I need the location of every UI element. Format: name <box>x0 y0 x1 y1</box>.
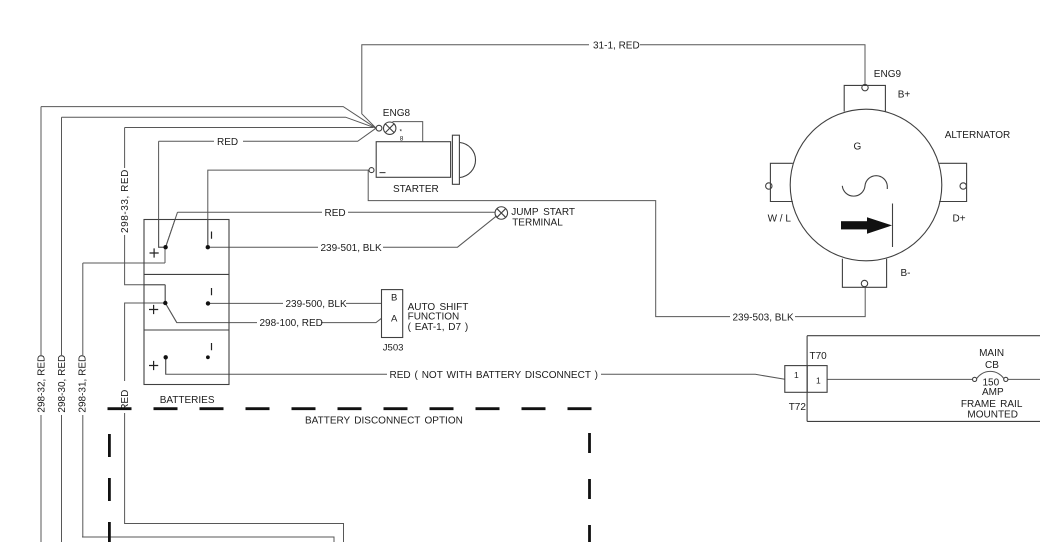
svg-text:D+: D+ <box>953 214 966 225</box>
svg-text:298-100, RED: 298-100, RED <box>260 318 323 329</box>
svg-text:298-32, RED: 298-32, RED <box>37 355 48 413</box>
svg-text:239-503, BLK: 239-503, BLK <box>733 312 794 323</box>
svg-text:RED ( NOT WITH BATTERY DISC: RED ( NOT WITH BATTERY DISCONNECT ) <box>390 370 598 381</box>
svg-text:1: 1 <box>816 375 821 385</box>
svg-text:W / L: W / L <box>768 214 792 225</box>
svg-text:FUNCTION: FUNCTION <box>408 311 460 322</box>
svg-text:1: 1 <box>794 370 799 380</box>
svg-text:FRAME RAIL: FRAME RAIL <box>961 399 1023 410</box>
svg-text:B-: B- <box>901 268 911 279</box>
svg-text:298-31, RED: 298-31, RED <box>78 355 89 413</box>
svg-text:JUMP START: JUMP START <box>511 207 575 218</box>
svg-text:J503: J503 <box>383 342 404 353</box>
svg-text:MOUNTED: MOUNTED <box>967 409 1018 420</box>
svg-text:ALTERNATOR: ALTERNATOR <box>945 130 1011 141</box>
svg-text:T70: T70 <box>810 351 828 362</box>
svg-text:AMP: AMP <box>982 387 1004 398</box>
svg-text:TERMINAL: TERMINAL <box>512 217 563 228</box>
svg-text:RED: RED <box>325 208 346 219</box>
svg-text:BATTERY DISCONNECT OPTION: BATTERY DISCONNECT OPTION <box>305 416 463 427</box>
svg-text:RED: RED <box>217 137 238 148</box>
svg-text:T72: T72 <box>789 402 807 413</box>
svg-text:239-501, BLK: 239-501, BLK <box>321 243 382 254</box>
svg-text:B+: B+ <box>898 90 911 101</box>
svg-text:B: B <box>391 292 397 303</box>
svg-text:ENG8: ENG8 <box>383 108 411 119</box>
svg-text:STARTER: STARTER <box>393 184 439 195</box>
svg-text:298-33, RED: 298-33, RED <box>120 169 131 233</box>
svg-text:CB: CB <box>985 360 999 371</box>
svg-text:31-1, RED: 31-1, RED <box>593 40 640 51</box>
svg-text:A: A <box>391 314 398 325</box>
svg-text:ENG9: ENG9 <box>874 69 902 80</box>
svg-text:8: 8 <box>400 135 404 142</box>
svg-text:298-30, RED: 298-30, RED <box>57 355 68 413</box>
svg-text:G: G <box>854 142 862 153</box>
svg-text:MAIN: MAIN <box>979 348 1004 359</box>
svg-text:239-500, BLK: 239-500, BLK <box>286 299 347 310</box>
svg-text:( EAT-1, D7 ): ( EAT-1, D7 ) <box>408 322 469 333</box>
svg-text:BATTERIES: BATTERIES <box>160 395 215 406</box>
